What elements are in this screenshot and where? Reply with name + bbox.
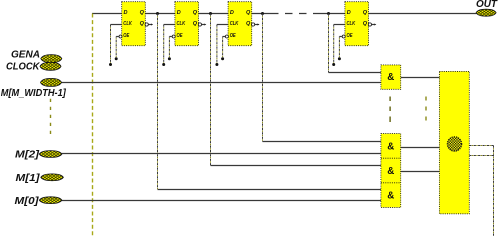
svg-text:M[0]: M[0] [15,195,40,207]
svg-text:&: & [387,166,394,177]
svg-text:&: & [387,72,394,83]
svg-text:&: & [387,191,394,202]
svg-text:M[2]: M[2] [15,149,40,161]
svg-text:GENA: GENA [11,49,40,61]
svg-text:&: & [387,142,394,153]
svg-text:M[1]: M[1] [16,172,41,184]
svg-text:OUT: OUT [476,0,498,10]
svg-text:CLOCK: CLOCK [6,61,41,73]
svg-text:M[M_WIDTH-1]: M[M_WIDTH-1] [1,87,66,99]
